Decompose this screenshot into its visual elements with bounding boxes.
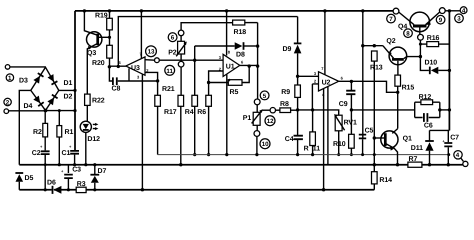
LED D12 xyxy=(80,121,100,166)
wire bridge right to +rail xyxy=(59,89,75,91)
diode D1 xyxy=(48,74,73,87)
svg-text:D10: D10 xyxy=(425,59,438,66)
node top wire / U1 V+ xyxy=(225,9,228,12)
svg-text:C3: C3 xyxy=(72,166,81,173)
wire to Q2 emitter xyxy=(363,45,383,47)
capacitor C5 xyxy=(359,127,374,156)
bottom - rail xyxy=(19,189,374,191)
terminal circle 9 xyxy=(436,8,445,24)
wire C9 node to R12/C6 loop xyxy=(351,109,414,111)
capacitor C4 xyxy=(285,136,303,155)
node top wire / U2 V+ xyxy=(323,9,326,12)
svg-text:U2: U2 xyxy=(322,80,331,87)
resistor R6 xyxy=(197,71,223,156)
transistor Q1 xyxy=(374,129,412,167)
node U3out riser xyxy=(117,65,120,68)
node top wire / U3 V+ xyxy=(140,9,143,12)
node R11 bottom xyxy=(311,153,314,156)
resistor R17 xyxy=(164,95,184,166)
wire bridge left to ground column xyxy=(19,90,31,164)
svg-text:D6: D6 xyxy=(47,180,56,187)
top +raw supply wire xyxy=(75,10,393,12)
svg-text:C6: C6 xyxy=(424,123,433,130)
resistor R13 xyxy=(370,51,383,166)
node top wire / Q3 collector xyxy=(83,9,86,12)
terminal circle 13 xyxy=(146,46,160,63)
node D8 right xyxy=(256,44,259,47)
node top wire / R19 xyxy=(108,9,111,12)
svg-text:3: 3 xyxy=(314,71,317,76)
svg-text:R4: R4 xyxy=(185,109,194,116)
potentiometer P2 xyxy=(165,23,233,96)
svg-text:D7: D7 xyxy=(98,168,107,175)
sense/feedback gray rail xyxy=(158,154,450,156)
capacitor C8 xyxy=(109,67,157,93)
node top wire / Q2 branch xyxy=(361,9,364,12)
wire U3 output to D9 (riser + long top link) xyxy=(118,17,297,67)
svg-text:3: 3 xyxy=(137,75,140,80)
svg-text:R16: R16 xyxy=(427,35,440,42)
svg-text:R15: R15 xyxy=(402,84,415,91)
svg-text:8: 8 xyxy=(406,31,410,38)
svg-text:D3: D3 xyxy=(19,78,28,85)
svg-text:6: 6 xyxy=(241,59,244,64)
svg-text:11: 11 xyxy=(166,68,173,75)
resistor R7 xyxy=(408,156,422,167)
node C8 / R21 xyxy=(156,79,159,82)
svg-text:3: 3 xyxy=(457,16,461,23)
op-amp U1 xyxy=(219,11,258,155)
transistor Q4 xyxy=(398,12,440,35)
svg-text:C2: C2 xyxy=(32,150,41,157)
node C4 xyxy=(296,153,299,156)
terminal circle 7 and Q4 collector in xyxy=(387,8,399,23)
trimmer RV1 xyxy=(334,114,357,156)
svg-text:R3: R3 xyxy=(77,181,86,188)
node Q2 collector / Q4 base xyxy=(419,55,422,58)
svg-text:6: 6 xyxy=(171,35,175,42)
resistor R11 xyxy=(304,110,321,155)
diode D11 xyxy=(411,130,434,166)
svg-text:13: 13 xyxy=(148,49,155,56)
node D9 / U2 in+ xyxy=(296,75,299,78)
node R11 / U2 in- xyxy=(311,108,314,111)
svg-text:2: 2 xyxy=(314,79,317,84)
node P1 bottom xyxy=(255,153,258,156)
svg-text:D12: D12 xyxy=(87,136,100,143)
diode D7 xyxy=(90,163,106,191)
svg-text:U1: U1 xyxy=(226,63,235,70)
svg-text:Q1: Q1 xyxy=(403,135,412,142)
capacitor C7 xyxy=(442,130,459,166)
svg-text:R9: R9 xyxy=(281,89,290,96)
svg-text:+: + xyxy=(61,169,64,174)
capacitor C3 xyxy=(61,165,81,192)
node U1 output xyxy=(256,64,259,67)
svg-text:12: 12 xyxy=(267,118,274,125)
svg-text:Q2: Q2 xyxy=(386,38,395,45)
svg-text:R2: R2 xyxy=(33,129,42,136)
resistor R16 xyxy=(419,35,450,46)
diode D3 xyxy=(19,73,44,84)
resistor R15 xyxy=(395,75,414,129)
svg-text:+: + xyxy=(40,144,43,149)
svg-text:5: 5 xyxy=(263,93,267,100)
resistor R12 / capacitor C6 loop xyxy=(415,94,451,130)
node bridge bottom xyxy=(44,109,48,113)
resistor R19 xyxy=(95,11,112,45)
wire terminal9 to right rail and pin 4/3 labels xyxy=(445,7,467,23)
svg-text:R7: R7 xyxy=(409,156,418,163)
svg-text:C8: C8 xyxy=(112,86,121,93)
transistor Q2 xyxy=(383,38,421,75)
svg-text:+: + xyxy=(69,144,72,149)
svg-text:1: 1 xyxy=(8,75,12,82)
svg-text:R13: R13 xyxy=(370,65,383,72)
raw + rail vertical x=75 xyxy=(74,11,76,150)
svg-text:D4: D4 xyxy=(24,103,33,110)
diode D2 xyxy=(47,94,72,106)
node bridge/+rail xyxy=(73,89,76,92)
svg-text:8: 8 xyxy=(228,49,231,54)
svg-text:R5: R5 xyxy=(230,89,239,96)
svg-text:7: 7 xyxy=(321,66,324,71)
svg-text:RV1: RV1 xyxy=(344,119,357,126)
resistor R4 xyxy=(185,46,198,156)
node Q2 emitter branch xyxy=(361,44,364,47)
resistor R9 xyxy=(281,76,300,135)
svg-text:4: 4 xyxy=(456,152,460,159)
op-amp U2 xyxy=(312,11,397,190)
bridge rectifier diamond xyxy=(31,67,59,110)
svg-text:R21: R21 xyxy=(162,86,175,93)
capacitor C1 xyxy=(62,144,80,166)
resistor R21 xyxy=(155,86,175,154)
svg-text:R10: R10 xyxy=(333,141,346,148)
svg-text:R20: R20 xyxy=(92,60,105,67)
svg-text:4: 4 xyxy=(322,92,325,97)
svg-text:C9: C9 xyxy=(339,101,348,108)
wire to U2 in+ xyxy=(298,75,319,77)
node gray/R21 handled; node U1 V- xyxy=(225,153,228,156)
main output - rail xyxy=(19,164,463,166)
svg-text:U3: U3 xyxy=(131,65,140,72)
op-amp U3 xyxy=(109,11,157,190)
svg-text:P2: P2 xyxy=(168,49,177,56)
svg-text:C5: C5 xyxy=(365,127,374,134)
diode D6 xyxy=(47,180,61,194)
svg-text:9: 9 xyxy=(439,17,443,24)
svg-text:R12: R12 xyxy=(419,94,432,101)
wire right rail corner to D11 xyxy=(430,129,450,131)
svg-text:3: 3 xyxy=(219,55,222,60)
output terminal 4 xyxy=(454,151,468,167)
node R9 / R8 xyxy=(296,108,299,111)
svg-text:D11: D11 xyxy=(411,145,423,152)
terminal 2 (AC input) xyxy=(4,98,11,113)
svg-text:R8: R8 xyxy=(280,101,289,108)
wire terminal2 to bridge bottom xyxy=(9,110,46,112)
diode D9 xyxy=(283,17,302,77)
svg-text:R18: R18 xyxy=(234,29,247,36)
svg-text:P1: P1 xyxy=(243,115,252,122)
node C9 / R12 loop wire xyxy=(350,108,353,111)
svg-text:R19: R19 xyxy=(95,12,108,19)
terminal circle 8 (Q4 base) xyxy=(404,29,424,57)
node bottom rail junctions xyxy=(141,188,326,191)
resistor R3 xyxy=(76,181,86,192)
svg-text:D1: D1 xyxy=(64,80,73,87)
resistor R10 xyxy=(333,134,354,156)
wire R8 node to RV1 xyxy=(298,110,339,115)
resistor R18 xyxy=(233,20,258,36)
svg-text:R14: R14 xyxy=(379,177,392,184)
svg-text:6: 6 xyxy=(119,60,122,65)
svg-text:7: 7 xyxy=(389,16,393,23)
diode D10 xyxy=(420,57,451,75)
svg-text:4: 4 xyxy=(462,8,466,15)
wire top branch to Q2/C5 column xyxy=(362,11,364,138)
svg-text:C7: C7 xyxy=(450,134,459,141)
svg-text:10: 10 xyxy=(262,141,269,148)
node R5 feedback xyxy=(248,64,251,67)
node rail x75 xyxy=(73,109,76,112)
resistor R2 xyxy=(33,111,48,137)
resistor R14 xyxy=(372,165,393,190)
svg-text:R: R xyxy=(304,145,309,152)
resistor R20 xyxy=(92,45,112,67)
node R20 / C8 / U3 out xyxy=(108,65,111,68)
diode D4 xyxy=(24,96,44,110)
svg-text:R17: R17 xyxy=(164,109,177,116)
diode D8 xyxy=(195,42,258,58)
diode D5 xyxy=(15,173,33,190)
svg-text:R1: R1 xyxy=(65,129,74,136)
resistor R8 xyxy=(263,101,298,113)
svg-text:2: 2 xyxy=(6,99,10,106)
svg-text:D5: D5 xyxy=(25,175,34,182)
svg-text:D9: D9 xyxy=(283,46,292,53)
svg-text:R6: R6 xyxy=(197,109,206,116)
svg-text:6: 6 xyxy=(341,75,344,80)
svg-text:D8: D8 xyxy=(236,51,245,58)
right + rail vertical xyxy=(448,11,450,130)
resistor R5 xyxy=(209,66,250,96)
transistor Q3 xyxy=(84,11,109,94)
svg-text:D2: D2 xyxy=(64,94,73,101)
capacitor C9 xyxy=(339,81,356,134)
svg-text:C1: C1 xyxy=(62,150,71,157)
svg-text:11: 11 xyxy=(313,145,320,152)
svg-text:R22: R22 xyxy=(92,97,105,104)
feedback vertical R18/D8 to U1 output and P1 xyxy=(257,23,259,102)
capacitor C2 xyxy=(32,137,50,192)
wire terminal1 to bridge top xyxy=(10,66,46,68)
wire U3+ input to U1 xyxy=(159,59,223,61)
wire lower AC node xyxy=(46,110,76,112)
potentiometer P1 xyxy=(243,91,275,155)
terminal 1 (AC input) xyxy=(5,65,13,82)
svg-text:C4: C4 xyxy=(285,136,294,143)
svg-text:Q3: Q3 xyxy=(87,50,96,57)
resistor R1 xyxy=(57,111,74,167)
node R13 top xyxy=(373,44,376,47)
node R1 top xyxy=(58,109,61,112)
node U2 out / C9 xyxy=(350,80,353,83)
resistor R22 xyxy=(85,94,105,121)
